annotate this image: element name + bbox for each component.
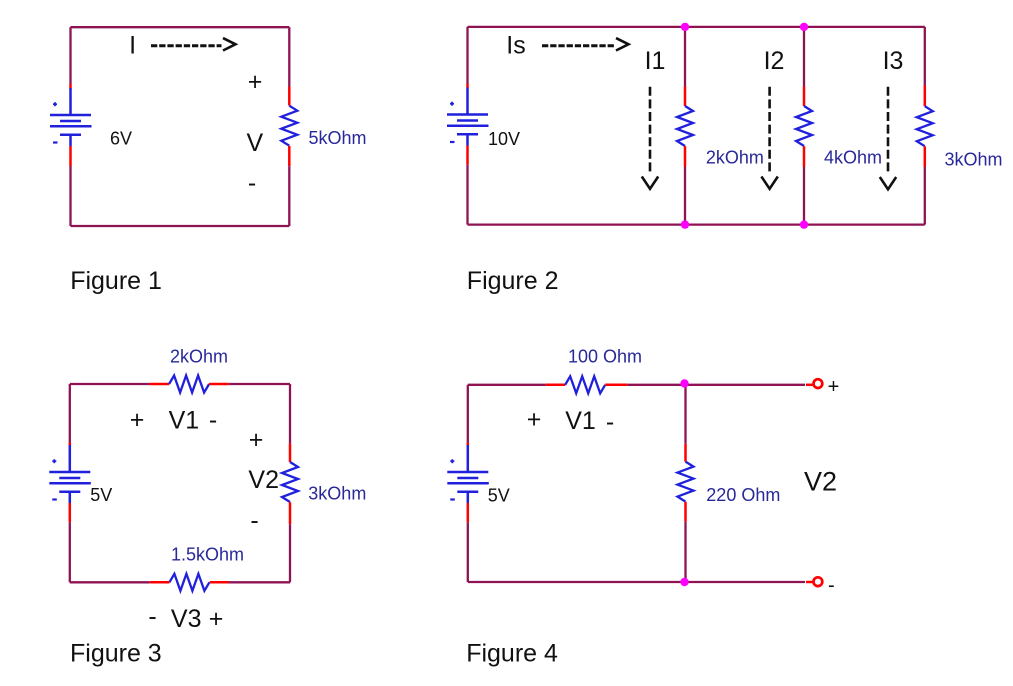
svg-text:+: + [828, 376, 840, 398]
wire fig2 bottom [468, 223, 925, 225]
resistor R2 2kOhm zigzag [677, 106, 693, 146]
svg-text:1.5kOhm: 1.5kOhm [171, 545, 244, 565]
svg-text:Figure 3: Figure 3 [70, 639, 162, 667]
svg-text:Figure 1: Figure 1 [70, 267, 162, 295]
resistor R1 5kOhm zigzag [281, 106, 297, 146]
svg-text:-: - [248, 169, 256, 197]
node junction dot bottom of branch2 [800, 220, 808, 228]
wire fig1 left lower [69, 166, 71, 226]
resistor R5 left red lead [149, 383, 169, 386]
resistor R4 3kOhm zigzag [917, 106, 933, 146]
node junction dot bottom of shunt [680, 578, 688, 586]
resistor R7 bottom red lead [289, 502, 292, 524]
svg-text:I2: I2 [764, 47, 785, 75]
battery 5V source fig3 plus mark [52, 459, 56, 463]
svg-text:V1: V1 [565, 407, 596, 435]
battery 5V source fig4 minus mark [450, 498, 455, 500]
wire fig3 bottom left segment [70, 581, 150, 583]
resistor R7 3kOhm zigzag [282, 462, 298, 502]
node junction dot bottom of branch1 [681, 220, 689, 228]
wire fig4 source red lead top [467, 443, 470, 446]
resistor R2 top red lead [684, 87, 687, 107]
svg-text:-: - [209, 406, 217, 434]
svg-text:V2: V2 [804, 467, 837, 497]
terminal plus output [814, 379, 823, 388]
svg-text:220 Ohm: 220 Ohm [706, 485, 780, 505]
svg-text:Is: Is [506, 31, 525, 59]
wire fig4 left upper [467, 385, 469, 443]
svg-text:10V: 10V [488, 129, 520, 149]
resistor R6 left red lead [150, 581, 170, 584]
wire fig2 top [468, 26, 925, 28]
current I3 dashed arrow [880, 87, 896, 190]
svg-text:+: + [248, 68, 263, 96]
current I2 dashed arrow [761, 87, 777, 189]
wire fig2 source red lead top [466, 84, 469, 89]
wire fig1 left upper [69, 27, 71, 84]
terminal minus output [814, 577, 823, 586]
wire fig1 bottom [71, 225, 290, 227]
wire fig3 top left segment [70, 383, 150, 385]
resistor R9 top red lead [684, 444, 687, 462]
resistor R8 right red lead [605, 384, 627, 387]
current Is dashed arrow [542, 38, 629, 50]
wire branch1 upper [684, 27, 686, 87]
resistor R6 1.5kOhm zigzag [169, 574, 209, 591]
wire fig3 source red lead top [69, 443, 72, 446]
wire fig2 left upper [466, 27, 468, 84]
svg-text:I1: I1 [645, 47, 666, 75]
battery V1 6V source [50, 88, 92, 146]
wire fig4 left lower [467, 522, 469, 582]
wire fig3 right upper [289, 384, 291, 444]
node junction dot top of branch1 [681, 23, 689, 31]
current I1 dashed arrow [642, 87, 658, 189]
battery 10V source plus mark [450, 102, 454, 106]
battery V1 6V source plus mark [53, 102, 57, 106]
resistor R1 bottom red lead [288, 146, 291, 166]
resistor R7 top red lead [289, 444, 292, 462]
svg-text:+: + [130, 406, 145, 434]
wire fig4 top left segment [468, 384, 546, 386]
resistor R9 bottom red lead [684, 502, 687, 522]
svg-text:100 Ohm: 100 Ohm [568, 347, 642, 367]
battery 5V source fig3 [49, 445, 91, 503]
battery 10V source minus mark [450, 141, 455, 143]
svg-text:V: V [247, 129, 264, 157]
svg-text:3kOhm: 3kOhm [945, 149, 1003, 169]
node junction dot top of branch2 [800, 23, 808, 31]
resistor R5 right red lead [209, 383, 229, 386]
svg-text:V2: V2 [248, 466, 279, 494]
wire fig4 red stub at plus terminal [806, 384, 813, 387]
svg-text:I3: I3 [883, 47, 904, 75]
svg-text:5kOhm: 5kOhm [309, 128, 367, 148]
wire fig2 right upper [924, 27, 926, 86]
resistor R8 left red lead [546, 384, 565, 387]
resistor R6 right red lead [210, 581, 229, 584]
wire fig2 left lower [466, 165, 468, 225]
wire fig3 right lower [289, 524, 291, 582]
svg-text:-: - [606, 408, 614, 436]
battery 5V source fig4 plus mark [450, 459, 454, 463]
battery V1 6V source minus mark [53, 141, 58, 143]
wire fig1 right upper [288, 27, 290, 86]
wire fig1 right lower [288, 166, 290, 226]
svg-text:6V: 6V [110, 129, 132, 149]
resistor R1 top red lead [288, 87, 291, 106]
svg-text:V1: V1 [169, 407, 200, 435]
current I dashed arrow [151, 38, 236, 50]
wire fig3 left upper [69, 384, 71, 443]
svg-text:2kOhm: 2kOhm [706, 148, 764, 168]
wire fig2 right lower [924, 167, 926, 225]
resistor R3 bottom red lead [803, 146, 806, 166]
wire fig3 top right segment [229, 383, 290, 385]
svg-text:5V: 5V [488, 485, 510, 505]
svg-text:Figure 4: Figure 4 [466, 639, 558, 667]
resistor R3 top red lead [803, 87, 806, 107]
svg-text:5V: 5V [90, 485, 112, 505]
battery 10V source [447, 88, 489, 146]
wire fig4 middle branch upper [684, 385, 686, 444]
resistor R4 top red lead [924, 86, 927, 107]
resistor R2 bottom red lead [684, 146, 687, 166]
svg-text:V3: V3 [171, 605, 202, 633]
svg-text:-: - [828, 575, 835, 597]
svg-text:I: I [129, 31, 136, 59]
wire branch1 lower [684, 167, 686, 225]
svg-text:3kOhm: 3kOhm [308, 484, 366, 504]
svg-text:+: + [249, 426, 264, 454]
wire fig1 left red lead bottom of source [69, 146, 72, 166]
svg-text:2kOhm: 2kOhm [170, 346, 228, 366]
resistor R9 220 Ohm zigzag [678, 462, 694, 502]
battery 5V source fig3 minus mark [52, 498, 57, 500]
svg-text:-: - [148, 603, 156, 631]
figure 1 circuit: 6V source with 5kOhm load [0, 0, 1, 1]
svg-text:+: + [527, 406, 542, 434]
svg-text:-: - [250, 507, 258, 535]
wire fig4 top right segment to terminal [627, 384, 805, 386]
wire fig3 left lower [69, 522, 71, 582]
resistor R8 100 Ohm zigzag [565, 376, 605, 393]
resistor R4 bottom red lead [924, 146, 927, 166]
wire fig3 bottom right segment [229, 581, 291, 583]
wire fig3 source red lead bottom [69, 503, 72, 522]
wire fig1 left red lead top of V1 source [69, 84, 72, 89]
wire fig4 red stub at minus terminal [806, 581, 813, 584]
wire branch2 upper [803, 27, 805, 87]
wire fig4 source red lead bottom [467, 503, 470, 522]
resistor R3 4kOhm zigzag [796, 106, 812, 146]
svg-text:Figure 2: Figure 2 [467, 267, 559, 295]
svg-text:+: + [209, 605, 224, 633]
node junction dot top of shunt [680, 379, 688, 387]
svg-text:4kOhm: 4kOhm [824, 148, 882, 168]
wire fig4 middle branch lower [684, 522, 686, 582]
wire branch2 lower [803, 167, 805, 225]
resistor R5 2kOhm zigzag [169, 376, 209, 393]
wire fig4 bottom to terminal [468, 581, 805, 583]
wire fig2 source red lead bottom [466, 146, 469, 165]
wire fig1 top [71, 26, 290, 28]
battery 5V source fig4 [447, 445, 489, 503]
